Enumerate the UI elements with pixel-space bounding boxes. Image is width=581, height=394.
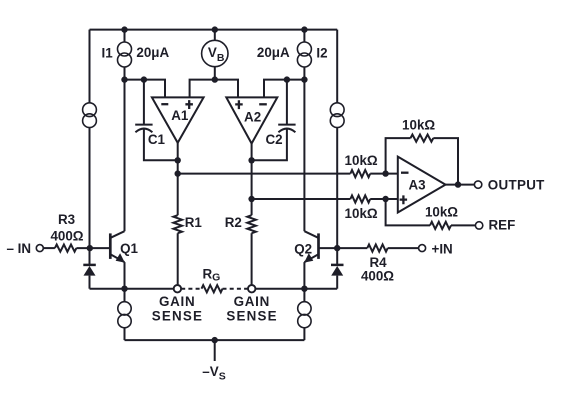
wire right rail upper: [336, 30, 338, 103]
resistor RG: [202, 285, 223, 292]
node A3 inverting input: [382, 170, 388, 176]
capacitor C1: [143, 80, 145, 124]
transistor Q1: [109, 233, 112, 259]
resistor R2: [247, 215, 256, 233]
current source I2: [303, 30, 305, 42]
node output junction: [455, 181, 461, 187]
wire A2 output: [251, 144, 253, 216]
node Q1 base: [87, 245, 93, 251]
svg-text:20μA: 20μA: [257, 45, 290, 60]
svg-text:R1: R1: [185, 215, 203, 230]
wire left rail lower: [89, 128, 91, 249]
node top rail I2: [301, 26, 307, 32]
wire bottom supply rail: [125, 339, 305, 341]
terminal +IN: [419, 245, 426, 252]
svg-text:C1: C1: [148, 132, 166, 147]
svg-text:A1: A1: [171, 108, 189, 123]
wire emitter rail dashed right: [223, 288, 249, 290]
node A1 to A3 tap: [175, 170, 181, 176]
voltage source VB: [214, 30, 216, 41]
wire REF from A3 + input: [386, 199, 430, 225]
diode at Q2 base: [336, 248, 338, 264]
wire emitter rail dashed left: [181, 288, 201, 290]
svg-text:GAIN: GAIN: [159, 294, 195, 309]
wire top rail: [90, 29, 338, 31]
svg-text:SENSE: SENSE: [226, 308, 277, 323]
svg-text:400Ω: 400Ω: [50, 229, 83, 244]
resistor R1: [173, 215, 182, 233]
svg-text:10kΩ: 10kΩ: [402, 118, 435, 133]
transistor Q2: [317, 233, 320, 259]
op-amp A1: [152, 97, 204, 142]
svg-text:GAIN: GAIN: [234, 294, 270, 309]
svg-text:R3: R3: [58, 212, 75, 227]
wire -VS stub: [214, 340, 216, 361]
svg-text:Q1: Q1: [120, 241, 138, 256]
wire A2 inverting input to I2 / Q2 collector node: [264, 80, 304, 98]
svg-text:400Ω: 400Ω: [361, 269, 394, 284]
current source on left rail: [83, 103, 97, 117]
wire node row left (I1 / Q1 collector to A1 inverting input): [125, 80, 166, 98]
op-amp A2: [226, 97, 277, 143]
wire emitter rail right: [255, 288, 337, 290]
node I1 Q1 collector: [121, 76, 127, 82]
svg-text:Q2: Q2: [294, 242, 312, 257]
terminal gain sense right: [248, 285, 255, 292]
wire A2 node to A3 + input: [252, 198, 351, 200]
svg-text:10kΩ: 10kΩ: [345, 206, 378, 221]
wire feedback loop: [386, 138, 411, 174]
resistor R3: [55, 245, 77, 252]
svg-text:– IN: – IN: [7, 241, 32, 256]
current source tail right: [303, 289, 305, 302]
current source on right rail: [330, 103, 344, 117]
capacitor C2: [286, 80, 288, 124]
node A2 output C2: [248, 157, 254, 163]
current source I1: [124, 30, 126, 42]
svg-text:A2: A2: [244, 110, 261, 125]
node I2 Q2 collector: [301, 76, 307, 82]
node Q2 base +IN: [334, 245, 340, 251]
node A1 output C1: [175, 157, 181, 163]
op-amp A3: [398, 157, 446, 213]
svg-text:10kΩ: 10kΩ: [425, 204, 458, 219]
svg-text:R2: R2: [225, 215, 242, 230]
svg-text:I1: I1: [102, 46, 114, 61]
wire -IN lead: [43, 247, 55, 249]
current source tail left: [124, 289, 126, 302]
node A3 + input: [382, 196, 388, 202]
node VB bias: [212, 76, 218, 82]
terminal OUTPUT: [474, 181, 481, 188]
wire emitter rail left: [90, 288, 174, 290]
wire A1 node to A3 inverting input: [178, 173, 351, 175]
resistor 10k ref: [430, 222, 451, 229]
diode at Q1 base: [89, 248, 91, 264]
wire VB to A2 + input: [215, 80, 238, 98]
svg-text:REF: REF: [489, 217, 516, 232]
svg-text:OUTPUT: OUTPUT: [488, 177, 545, 192]
node A2 to A3 tap: [248, 196, 254, 202]
resistor 10k upper input: [350, 170, 370, 177]
node -VS junction: [212, 337, 218, 343]
wire A3 output: [446, 184, 475, 186]
terminal gain sense left: [174, 285, 181, 292]
node Q2 emitter: [301, 286, 307, 292]
node top rail VB: [212, 26, 218, 32]
svg-text:SENSE: SENSE: [152, 308, 203, 323]
node top rail I1: [121, 26, 127, 32]
svg-text:+IN: +IN: [432, 241, 453, 256]
node C2 tap: [284, 76, 290, 82]
wire Q2 collector: [303, 80, 305, 232]
svg-text:20μA: 20μA: [136, 45, 169, 60]
svg-text:A3: A3: [408, 177, 425, 192]
resistor 10k lower input: [350, 195, 370, 202]
wire Q1 collector: [124, 80, 126, 232]
wire right rail lower: [336, 128, 338, 249]
wire A1 output: [177, 143, 179, 215]
resistor 10k feedback: [411, 135, 434, 142]
wire left rail upper: [89, 30, 91, 103]
svg-text:10kΩ: 10kΩ: [345, 153, 378, 168]
resistor R4: [337, 247, 367, 249]
svg-text:C2: C2: [265, 132, 282, 147]
wire VB to A1 + input: [190, 80, 215, 98]
node C1 tap: [141, 76, 147, 82]
node Q1 emitter: [121, 286, 127, 292]
terminal REF: [475, 222, 482, 229]
svg-text:I2: I2: [316, 46, 327, 61]
